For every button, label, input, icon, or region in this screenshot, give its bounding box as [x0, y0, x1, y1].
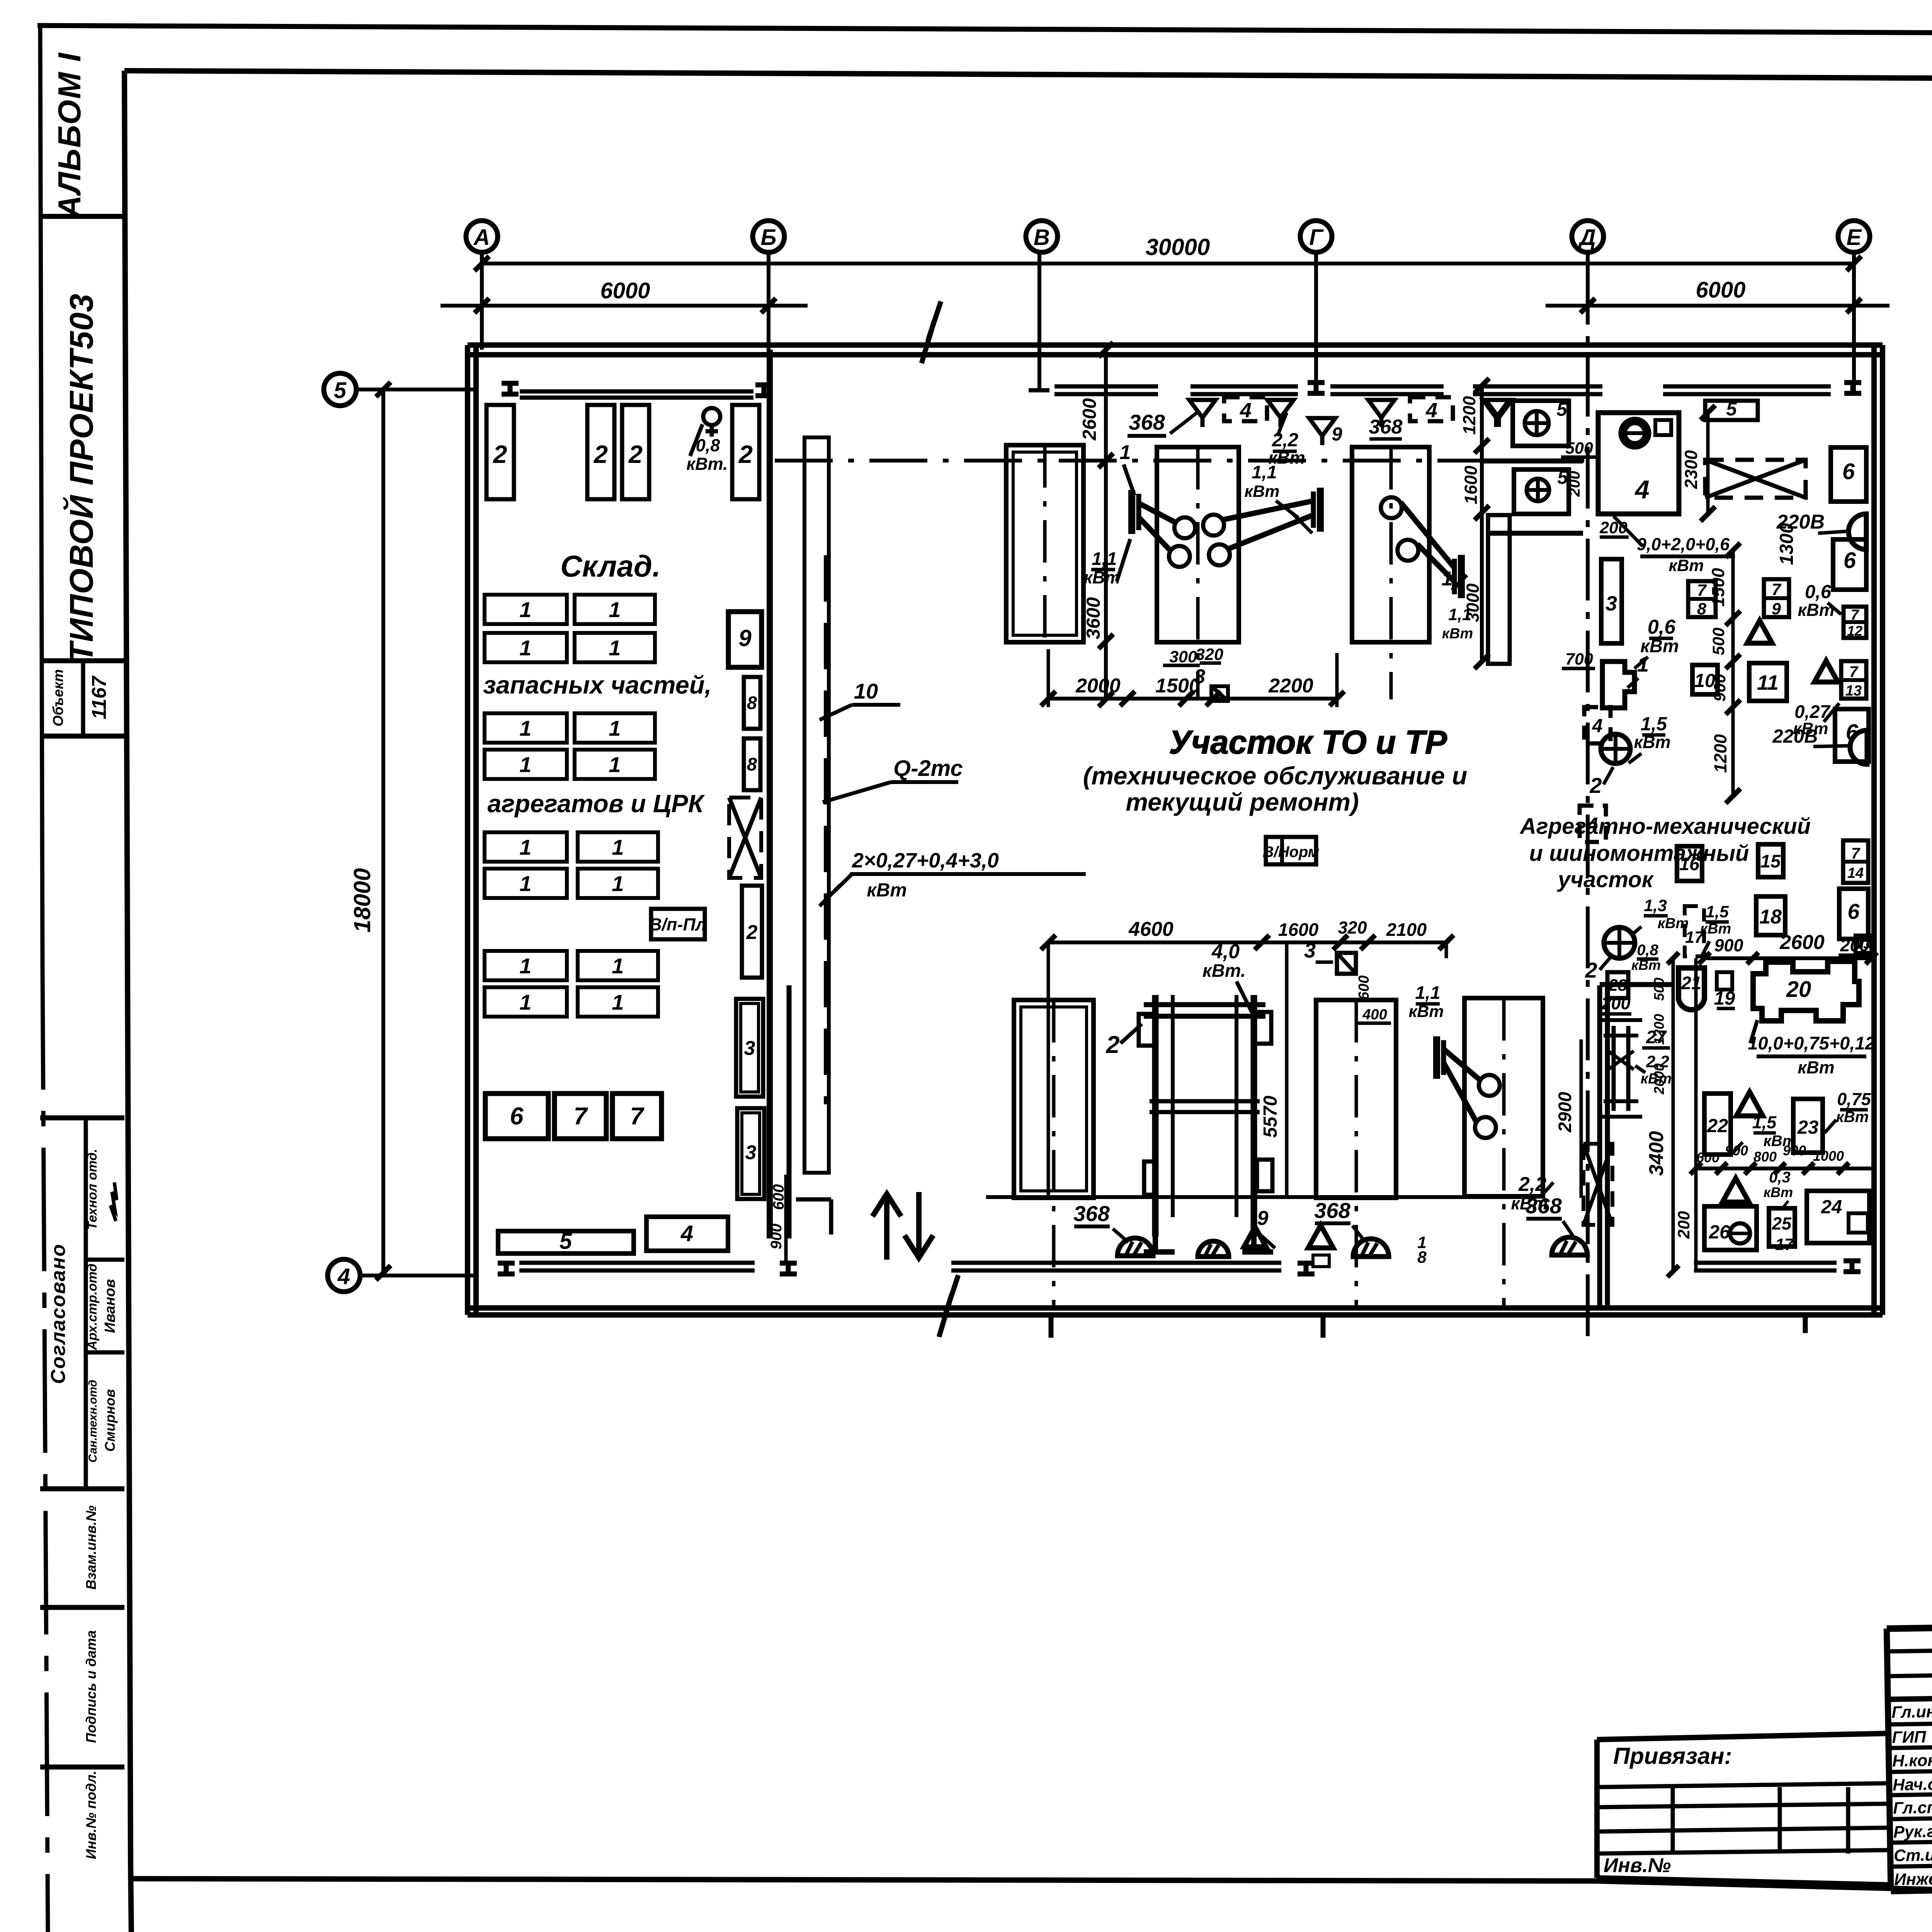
san tehn otd [87, 1380, 118, 1463]
rack row 6 [485, 869, 658, 898]
gate sills bottom wall [519, 1263, 1837, 1270]
svg-text:(техническое обслуживание и: (техническое обслуживание и [1083, 762, 1467, 790]
label 06 kwt item1 [1634, 616, 1679, 668]
label 368 b3 [1526, 1194, 1575, 1238]
crane axis dashed [824, 555, 828, 1104]
agregatno text 2 [1529, 841, 1749, 866]
label 075 kwt [1825, 1089, 1871, 1133]
floor drain funnel 2 [1267, 400, 1294, 427]
dim 2300 [1681, 405, 1715, 521]
svg-text:7: 7 [630, 1103, 645, 1130]
svg-text:2100: 2100 [1386, 919, 1427, 940]
partition wall storage [770, 350, 789, 1238]
agregatno text 1 [1519, 814, 1811, 839]
box 26 [1704, 1206, 1757, 1250]
partition door jamb [796, 1199, 831, 1235]
svg-text:1: 1 [519, 597, 531, 622]
lift pad 1 upper [1006, 445, 1083, 642]
box 7a storage [554, 1094, 606, 1139]
box 10 [1692, 665, 1718, 694]
eq crossed box [729, 798, 761, 878]
power post L1 [1437, 1036, 1500, 1138]
svg-text:600: 600 [1356, 975, 1372, 1000]
svg-text:10: 10 [854, 679, 878, 703]
column symbols bottom [498, 1261, 1861, 1274]
svg-text:Ст.инж.: Ст.инж. [1894, 1845, 1932, 1865]
dim chain right rooms [1726, 543, 1740, 803]
svg-text:30000: 30000 [1146, 234, 1210, 260]
svg-text:368: 368 [1369, 416, 1403, 438]
label 15kwt up [1629, 714, 1671, 763]
eq 9 [728, 612, 762, 667]
label 9 bottom [1256, 1207, 1275, 1248]
agregatno text 3 [1557, 867, 1654, 892]
svg-text:4,0: 4,0 [1211, 940, 1240, 963]
svg-text:Арх.стр.отд: Арх.стр.отд [85, 1264, 100, 1350]
title block [1887, 1616, 1932, 1891]
dim text 1600 [1278, 919, 1319, 940]
box 3 tall [1601, 559, 1622, 643]
svg-text:9: 9 [1772, 600, 1781, 618]
svg-text:21: 21 [1681, 973, 1701, 993]
locker 2-1 [486, 405, 514, 499]
dim text 2200 [1268, 675, 1313, 697]
dim line 30000 [474, 256, 1861, 271]
label 22kwt bottom [1511, 1173, 1553, 1213]
hall subtitle 2 [1126, 788, 1359, 816]
svg-text:1: 1 [609, 716, 621, 740]
triangle 22 [1736, 1092, 1763, 1116]
axis bubble 5 left [324, 373, 476, 406]
svg-text:1,5: 1,5 [1641, 714, 1667, 735]
svg-text:Смирнов: Смирнов [102, 1389, 118, 1452]
svg-text:3000: 3000 [1463, 583, 1483, 622]
dim line 6000 right [1546, 298, 1889, 313]
box 11 [1749, 663, 1787, 701]
svg-text:Д: Д [1578, 225, 1596, 250]
small box in 4 [1655, 420, 1671, 435]
dim labels right chain [1708, 568, 1730, 773]
svg-text:2000: 2000 [1651, 1063, 1667, 1095]
svg-text:Н.контр.: Н.контр. [1892, 1751, 1932, 1770]
locker 2-2 [587, 405, 614, 499]
svg-text:23: 23 [1797, 1117, 1819, 1138]
label 368 b1 [1073, 1201, 1128, 1242]
label 700 [1562, 650, 1595, 668]
svg-text:900: 900 [768, 1224, 785, 1250]
lift pad 4 lower [1464, 998, 1543, 1196]
lift pad 3 lower [1316, 1000, 1396, 1198]
svg-text:17: 17 [1775, 1235, 1794, 1254]
svg-text:2600: 2600 [1079, 398, 1100, 440]
svg-text:18: 18 [1759, 906, 1782, 928]
svg-text:и шиномонтажный: и шиномонтажный [1529, 841, 1749, 866]
label 200 under4 [1599, 519, 1629, 537]
svg-text:28: 28 [1608, 976, 1627, 995]
top wall [468, 345, 1883, 355]
svg-text:5: 5 [1726, 399, 1737, 420]
svg-text:6: 6 [1844, 548, 1856, 573]
svg-text:3: 3 [1194, 665, 1206, 688]
wall break top [922, 301, 941, 363]
svg-text:1: 1 [519, 871, 531, 896]
item 3 small [1194, 665, 1228, 701]
item 3 lower [1304, 939, 1356, 974]
bench rect right rooms [1488, 515, 1510, 664]
dim text 1500 [1155, 675, 1200, 697]
left wall [468, 345, 476, 1315]
power post U1 [1132, 490, 1195, 567]
svg-text:Гл.спец.: Гл.спец. [1893, 1798, 1932, 1818]
svg-text:Б: Б [760, 225, 776, 250]
svg-text:1: 1 [519, 990, 531, 1014]
svg-text:0,6: 0,6 [1648, 616, 1676, 638]
dim 600 900 partition [768, 1175, 787, 1263]
svg-text:12: 12 [1847, 623, 1862, 639]
box 7-8 [1688, 581, 1716, 618]
dim text 2100 [1386, 919, 1427, 940]
machine 4 big [1598, 413, 1679, 514]
svg-text:1: 1 [612, 871, 624, 896]
label 368 top2 [1369, 416, 1403, 439]
svg-text:4: 4 [1634, 475, 1649, 504]
label 22kwt j [1635, 1053, 1672, 1087]
box 17 dashed [1685, 906, 1704, 956]
svg-text:600: 600 [770, 1184, 787, 1210]
item 21 horseshoe [1679, 968, 1704, 1010]
updown arrows [872, 1192, 933, 1260]
machine 5a [1513, 399, 1569, 446]
label 200 low [1601, 993, 1631, 1014]
floor drain funnel 4 [1483, 400, 1509, 427]
svg-text:7: 7 [1850, 607, 1859, 623]
rack row 2 [485, 633, 655, 662]
label 1.1kwt U3r [1442, 605, 1473, 642]
signature t1 [111, 1182, 117, 1221]
svg-text:400: 400 [1362, 1007, 1387, 1023]
dim chain 2600 3600 [1079, 342, 1113, 707]
svg-text:3: 3 [745, 1141, 757, 1164]
svg-text:6: 6 [1842, 459, 1855, 484]
locker 2-4 [732, 405, 759, 499]
label 10+075+012 [1748, 1020, 1875, 1077]
svg-text:4600: 4600 [1128, 918, 1173, 940]
svg-text:1,3: 1,3 [1644, 896, 1667, 915]
svg-text:запасных частей,: запасных частей, [483, 671, 711, 699]
svg-text:4: 4 [1425, 399, 1437, 422]
axis stem B [767, 252, 770, 355]
svg-text:1,1: 1,1 [1415, 982, 1440, 1003]
small eq bottom1 [1198, 1227, 1266, 1257]
lift pad 2 upper [1157, 447, 1239, 642]
machine 5b [1514, 467, 1569, 514]
center dash line upper [775, 459, 1584, 463]
svg-text:7: 7 [1772, 580, 1782, 599]
arch str otd [85, 1264, 118, 1350]
svg-text:агрегатов и ЦРК: агрегатов и ЦРК [487, 789, 705, 818]
svg-text:Рук.гр.: Рук.гр. [1893, 1822, 1932, 1841]
sheet inner frame left [124, 71, 131, 1932]
svg-text:1: 1 [609, 636, 621, 660]
svg-text:Нач.отд.: Нач.отд. [1893, 1775, 1932, 1794]
technol otd label [85, 1149, 100, 1230]
svg-text:5: 5 [560, 1229, 572, 1254]
svg-text:6000: 6000 [1696, 277, 1745, 303]
dim labels 500-1200 [1651, 978, 1667, 1095]
svg-text:700: 700 [1565, 650, 1593, 668]
frame lift 2 [1144, 995, 1265, 1236]
frame lift clamps [1139, 1012, 1272, 1195]
svg-text:3: 3 [1605, 592, 1617, 615]
svg-text:4: 4 [1240, 399, 1252, 422]
svg-text:9: 9 [1332, 424, 1342, 445]
dim text 320 [1338, 918, 1367, 937]
svg-text:кВт: кВт [867, 880, 907, 901]
rack row 8 [485, 987, 658, 1017]
album label [51, 52, 87, 219]
axis stem E [1852, 252, 1856, 391]
sheet inner frame top [124, 71, 1932, 81]
svg-text:19: 19 [1714, 988, 1735, 1009]
svg-text:1,5: 1,5 [1752, 1112, 1777, 1132]
svg-text:2600: 2600 [1779, 931, 1825, 954]
svg-text:В: В [1034, 225, 1050, 250]
circle machine 2 up [1601, 734, 1630, 764]
svg-text:7: 7 [1849, 663, 1859, 680]
label 368 b2 [1314, 1198, 1364, 1240]
svg-text:1167: 1167 [88, 675, 111, 719]
socket symbol [703, 408, 720, 437]
svg-text:4: 4 [1592, 716, 1602, 736]
svg-text:22: 22 [1707, 1116, 1728, 1136]
svg-text:14: 14 [1847, 865, 1864, 881]
svg-text:2900: 2900 [1554, 1092, 1575, 1133]
storage title [560, 549, 661, 583]
triangle r1 [1747, 621, 1772, 643]
svg-text:900: 900 [1711, 674, 1729, 702]
label 27 [1642, 1027, 1670, 1048]
svg-text:500: 500 [1651, 978, 1667, 1001]
label 40kwt [1202, 940, 1252, 1012]
label 0.8 kwt [686, 424, 728, 474]
dim text 6000 left [600, 278, 650, 303]
lift pad 1 lower axis [1052, 1000, 1056, 1309]
lift pad 2 axis [1196, 447, 1200, 699]
item 27 jack [1600, 1020, 1642, 1117]
axis line D [1586, 263, 1590, 1338]
svg-text:26: 26 [1709, 1222, 1730, 1243]
dim line 2000 1500 2200 [1041, 691, 1344, 706]
dim text 4600 [1128, 918, 1173, 940]
eq 3a [736, 999, 763, 1097]
box 6 r1 [1831, 447, 1866, 502]
svg-text:Склад.: Склад. [560, 549, 661, 583]
svg-text:текущий ремонт): текущий ремонт) [1126, 788, 1359, 816]
label 03 kwt [1764, 1169, 1793, 1209]
label 1.1kwt U1 [1083, 539, 1130, 587]
svg-text:Взам.инв.№: Взам.инв.№ [83, 1505, 99, 1590]
label 200 r4 [1838, 935, 1871, 955]
dashed box 4 ra [1584, 707, 1611, 743]
label 15 kwt low [1700, 903, 1731, 956]
svg-text:3: 3 [744, 1037, 755, 1060]
callout 10 [820, 679, 900, 720]
dim 900 2600 [1699, 931, 1877, 964]
object box [40, 661, 124, 736]
dim text 18000 [349, 868, 375, 933]
svg-text:7: 7 [1697, 581, 1707, 600]
hall title [1169, 724, 1447, 761]
svg-text:900: 900 [1714, 935, 1743, 955]
dashed box 4-1 [1224, 397, 1267, 422]
triangle 26 [1723, 1178, 1749, 1202]
svg-text:1: 1 [1120, 441, 1131, 464]
svg-text:0,8: 0,8 [696, 435, 720, 455]
wall break bottom [939, 1275, 958, 1337]
svg-text:600: 600 [1696, 1150, 1719, 1165]
axis stem V [1029, 252, 1049, 390]
svg-text:0,3: 0,3 [1769, 1169, 1791, 1186]
box 15 [1758, 844, 1783, 877]
label 17 under [1775, 1235, 1794, 1254]
svg-text:2,2: 2,2 [1272, 430, 1298, 451]
svg-text:2,2: 2,2 [1518, 1173, 1546, 1196]
svg-text:1: 1 [1442, 568, 1453, 590]
svg-text:Согласовано: Согласовано [47, 1243, 70, 1384]
svg-text:1200: 1200 [1459, 396, 1479, 435]
svg-text:Е: Е [1847, 225, 1862, 250]
svg-text:Участок ТО и ТР: Участок ТО и ТР [1169, 724, 1447, 761]
label 2 lift [1105, 1024, 1142, 1058]
svg-text:25: 25 [1772, 1214, 1792, 1233]
svg-text:кВт: кВт [1244, 482, 1279, 501]
vzam inv box [40, 1505, 124, 1607]
crossed dashed rect lower [1583, 1144, 1612, 1225]
box 24 sub [1849, 1213, 1868, 1233]
right wall [1874, 345, 1883, 1315]
svg-text:9: 9 [1257, 1207, 1269, 1230]
svg-text:кВт: кВт [1764, 1184, 1793, 1200]
svg-text:320: 320 [1338, 918, 1367, 937]
svg-text:6: 6 [1847, 899, 1860, 923]
svg-text:900: 900 [1783, 1143, 1806, 1158]
dim chain 1200 1600 3000 [1459, 378, 1489, 669]
dim line 18000 [376, 382, 391, 1280]
label 08 kwt [1631, 942, 1661, 973]
floor drain funnel 1 [1189, 400, 1216, 427]
lift pad 3 axis [1389, 447, 1393, 699]
rack row 7 [485, 951, 658, 980]
dim text 300 320 [1163, 645, 1223, 666]
box 4 storage [646, 1217, 728, 1251]
svg-text:Технол отд.: Технол отд. [85, 1149, 100, 1230]
item 1 lshape [1602, 662, 1634, 708]
box 16 [1677, 846, 1702, 881]
bottom wall [468, 1308, 1883, 1315]
box 6 r4 [1839, 889, 1868, 939]
box 13 small [1855, 935, 1871, 953]
svg-text:3600: 3600 [1083, 597, 1104, 639]
dim 2900 [1554, 1039, 1581, 1198]
svg-text:1: 1 [519, 954, 531, 978]
box 6 r2 [1833, 539, 1866, 590]
box 7-14 [1843, 840, 1868, 883]
dim text 6000 right [1696, 277, 1745, 303]
storage text zapasnyh [483, 671, 711, 699]
washer drum [1621, 419, 1649, 447]
object number 1167 [88, 675, 111, 719]
label 1 U1 [1120, 441, 1134, 495]
svg-text:900: 900 [1725, 1143, 1748, 1158]
svg-text:8: 8 [1417, 1248, 1427, 1267]
strip divider above object box [40, 658, 124, 663]
dim line 4600-2100 [1041, 935, 1454, 950]
dim ext lower [1048, 942, 1446, 1198]
svg-text:А: А [473, 225, 490, 250]
svg-text:0,8: 0,8 [1637, 942, 1658, 959]
crossed dashed rect [1705, 460, 1806, 498]
frame lift feet [1144, 1236, 1273, 1252]
svg-text:1: 1 [519, 752, 531, 777]
box 7-9 [1764, 579, 1789, 618]
power post U2 [1203, 488, 1320, 565]
svg-text:18000: 18000 [349, 868, 375, 933]
box 7-13 [1841, 661, 1866, 699]
triangle bottom [1308, 1225, 1333, 1267]
rack row 4 [485, 750, 655, 779]
svg-text:9,0+2,0+0,6: 9,0+2,0+0,6 [1637, 534, 1730, 554]
svg-text:кВт: кВт [1511, 1194, 1548, 1213]
svg-text:5: 5 [1556, 399, 1567, 420]
label 06kwt r [1798, 582, 1841, 620]
svg-text:Г: Г [1309, 225, 1324, 250]
box 23 [1793, 1099, 1823, 1153]
label 2 circle up [1589, 767, 1613, 798]
label 22kwt top [1268, 413, 1305, 468]
box 5 long storage [498, 1229, 634, 1254]
sheet outer top border [37, 26, 1932, 36]
svg-text:1000: 1000 [1813, 1148, 1844, 1164]
eq 8b [744, 738, 760, 790]
machine 20 [1753, 961, 1859, 1021]
svg-text:2: 2 [628, 440, 643, 468]
svg-text:200: 200 [1675, 1211, 1693, 1239]
svg-text:1: 1 [519, 716, 531, 740]
svg-text:11: 11 [1757, 671, 1779, 694]
dim line 6000 left [440, 298, 808, 313]
svg-text:7: 7 [1851, 845, 1861, 862]
svg-text:ТИПОВОЙ ПРОЕКТ503: ТИПОВОЙ ПРОЕКТ503 [63, 293, 100, 662]
svg-text:участок: участок [1557, 867, 1654, 892]
svg-text:кВт: кВт [1658, 915, 1689, 932]
label 11kwt lower mid [1408, 982, 1444, 1021]
svg-text:20: 20 [1786, 977, 1811, 1002]
axis stem D [1586, 252, 1590, 263]
svg-text:кВт.: кВт. [1202, 960, 1246, 981]
funnel at room5 [1486, 400, 1512, 427]
partition right lower vertical [1600, 985, 1674, 1308]
svg-text:В/п-Пл: В/п-Пл [649, 915, 706, 934]
svg-text:320: 320 [1196, 645, 1223, 664]
dim 1300 [1776, 523, 1797, 565]
svg-text:Привязан:: Привязан: [1613, 1743, 1732, 1769]
wall lamp 1 [1776, 511, 1866, 549]
svg-text:500: 500 [1565, 439, 1593, 457]
strip divider below album [40, 214, 124, 219]
box 6 r3 [1835, 709, 1869, 762]
dome symbol 3 [1552, 1237, 1587, 1255]
eq 8a [744, 677, 760, 729]
